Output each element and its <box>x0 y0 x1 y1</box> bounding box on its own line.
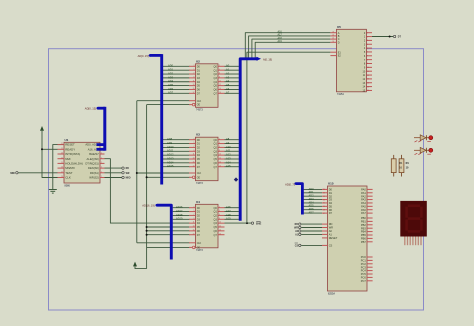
svg-text:ALE(QS0): ALE(QS0) <box>87 157 99 161</box>
svg-text:AD18: AD18 <box>176 213 183 217</box>
svg-text:AD7: AD7 <box>168 91 174 95</box>
U2 left pins <box>189 65 196 67</box>
svg-text:AD16: AD16 <box>176 205 183 209</box>
svg-text:AD15: AD15 <box>167 164 174 168</box>
U1 left pins <box>58 144 65 146</box>
svg-text:U15: U15 <box>328 182 334 186</box>
svg-text:CLK: CLK <box>197 243 202 245</box>
svg-text:RD: RD <box>295 224 299 226</box>
svg-text:PC1: PC1 <box>361 259 367 263</box>
svg-text:11: 11 <box>367 71 369 73</box>
wire U4 D6 <box>147 230 190 232</box>
wire A14 from U3 <box>225 162 239 164</box>
svg-text:74373: 74373 <box>196 109 203 112</box>
svg-text:CLK: CLK <box>197 173 202 175</box>
junction D7 <box>146 234 148 236</box>
wire A0 to U15 <box>301 230 322 232</box>
svg-text:15: 15 <box>193 88 195 90</box>
svg-text:1: 1 <box>367 32 368 34</box>
U5 left pins <box>330 32 336 34</box>
bus AD[16..19] stub <box>156 204 159 207</box>
wire AD9 to U3 <box>163 143 190 145</box>
svg-text:CS: CS <box>329 244 333 248</box>
svg-text:U4: U4 <box>196 200 200 204</box>
svg-text:WR: WR <box>294 228 298 230</box>
svg-text:7: 7 <box>193 214 194 216</box>
wire U1 to terminal WR <box>105 172 122 174</box>
svg-text:12: 12 <box>219 158 221 160</box>
svg-text:26: 26 <box>61 167 63 169</box>
processor U1 8086 <box>64 142 100 183</box>
svg-text:PA7: PA7 <box>361 211 366 215</box>
wire A5 from U2 <box>225 85 239 87</box>
svg-text:11: 11 <box>193 80 195 82</box>
svg-text:10: 10 <box>367 67 369 69</box>
wire U4 D7 <box>147 234 190 236</box>
svg-text:CLK: CLK <box>197 101 202 103</box>
wire U5 address input <box>245 33 330 58</box>
svg-text:A10: A10 <box>226 145 231 149</box>
svg-text:A7: A7 <box>226 91 230 95</box>
svg-text:A3: A3 <box>226 75 230 79</box>
svg-text:17: 17 <box>193 233 195 235</box>
wire AD8 to U3 <box>163 139 190 141</box>
terminal M/IO <box>122 176 124 178</box>
svg-text:A6: A6 <box>226 87 230 91</box>
wire AD6 to U15 <box>304 209 322 211</box>
svg-text:13: 13 <box>193 226 195 228</box>
wire AD10 to U3 <box>163 146 190 148</box>
wire MW to U1 <box>18 172 57 174</box>
junction OE-U3 <box>146 176 148 178</box>
decoder U5 74154 <box>337 29 367 92</box>
wire A0 from U2 <box>225 65 239 67</box>
wire RD to U15 <box>301 223 322 225</box>
LED D1 <box>414 137 429 139</box>
bus AD[0..15] stub at U1 <box>98 107 105 110</box>
svg-text:14: 14 <box>219 88 221 90</box>
svg-text:14: 14 <box>219 161 221 163</box>
svg-text:A8: A8 <box>226 137 230 141</box>
svg-text:10: 10 <box>219 80 221 82</box>
svg-text:PB6: PB6 <box>361 237 366 241</box>
svg-text:PC7: PC7 <box>361 279 367 283</box>
svg-text:A11: A11 <box>226 149 231 153</box>
svg-text:INTR(INTA): INTR(INTA) <box>65 152 80 156</box>
wire VCC to U1 READY and CLK <box>42 131 58 178</box>
svg-text:22: 22 <box>61 148 63 150</box>
wire A16 from U4 <box>225 207 239 209</box>
svg-text:AD10: AD10 <box>167 145 174 149</box>
svg-text:U3: U3 <box>196 133 200 137</box>
wire AD0 to U15 <box>304 188 322 190</box>
wire AD13 to U3 <box>163 158 190 160</box>
wire U4 BHE <box>225 222 252 224</box>
wire A13 from U3 <box>225 158 239 160</box>
U15 left pins <box>322 188 328 190</box>
wire AD6 to U2 <box>163 88 190 90</box>
svg-text:A17: A17 <box>226 209 231 213</box>
power VCC bottom <box>133 262 137 267</box>
svg-text:AD[16..19]: AD[16..19] <box>142 203 155 207</box>
wire U5 address input <box>249 36 331 58</box>
svg-text:AD12: AD12 <box>167 153 174 157</box>
svg-text:TEST: TEST <box>65 171 73 175</box>
svg-text:BHE/S7: BHE/S7 <box>89 152 99 156</box>
resistor R1 element B <box>401 155 403 159</box>
svg-text:3: 3 <box>193 65 194 67</box>
svg-text:D: D <box>338 41 340 44</box>
svg-text:HOLD(HLDA): HOLD(HLDA) <box>65 162 83 166</box>
svg-text:OE: OE <box>197 177 201 179</box>
svg-text:U2: U2 <box>196 59 200 63</box>
svg-text:A18: A18 <box>226 213 231 217</box>
svg-text:A12: A12 <box>226 153 231 157</box>
svg-text:AD4: AD4 <box>168 79 174 83</box>
svg-text:10: 10 <box>219 154 221 156</box>
svg-text:A0: A0 <box>226 64 230 68</box>
wire A9 from U3 <box>225 143 239 145</box>
svg-text:READY: READY <box>65 147 75 151</box>
svg-text:16: 16 <box>367 90 369 92</box>
wire AD12 to U3 <box>163 154 190 156</box>
svg-text:A4: A4 <box>226 79 230 83</box>
svg-text:8: 8 <box>367 59 368 61</box>
seven segment display <box>400 201 427 237</box>
svg-text:74373: 74373 <box>196 249 203 252</box>
wire U2 OE <box>147 104 190 106</box>
wire AD7 to U15 <box>304 212 322 214</box>
terminal BHE <box>251 222 253 224</box>
wire AD3 to U2 <box>163 77 190 79</box>
svg-text:74154: 74154 <box>337 93 344 96</box>
wire U4 OE <box>147 246 190 248</box>
svg-text:8086: 8086 <box>65 184 71 187</box>
svg-text:A13: A13 <box>226 156 231 160</box>
svg-text:AD[0..7]: AD[0..7] <box>285 182 295 186</box>
svg-text:13: 13 <box>193 84 195 86</box>
svg-text:PB1: PB1 <box>361 220 366 224</box>
wire AD11 to U3 <box>163 150 190 152</box>
svg-text:16: 16 <box>219 92 221 94</box>
wire U5 address input <box>252 39 331 58</box>
sheet border rectangle <box>49 49 424 310</box>
svg-text:15: 15 <box>367 86 369 88</box>
svg-text:RD: RD <box>329 222 333 226</box>
svg-text:WR: WR <box>329 226 333 230</box>
wire AD4 to U15 <box>304 202 322 204</box>
wire AD14 to U3 <box>163 162 190 164</box>
svg-text:3: 3 <box>367 40 368 42</box>
svg-text:4: 4 <box>367 44 368 46</box>
wire AD3 to U15 <box>304 199 322 201</box>
wire AD4 to U2 <box>163 81 190 83</box>
svg-text:34: 34 <box>323 189 325 191</box>
svg-text:NMI: NMI <box>65 157 70 161</box>
wire AD19 to U4 <box>173 218 190 220</box>
svg-text:A0: A0 <box>329 229 333 233</box>
svg-text:16: 16 <box>219 165 221 167</box>
svg-text:MN/MX: MN/MX <box>65 166 75 170</box>
wire AD0 to U2 <box>163 65 190 67</box>
svg-text:7: 7 <box>193 73 194 75</box>
svg-text:32: 32 <box>323 196 325 198</box>
wire AD1 to U15 <box>304 192 322 194</box>
svg-text:9: 9 <box>193 218 194 220</box>
svg-text:CLK: CLK <box>65 176 71 180</box>
svg-text:RESET: RESET <box>65 143 75 147</box>
wire U1 RESET to ground <box>53 145 64 190</box>
latch U3 74373 <box>196 137 219 181</box>
svg-text:OE: OE <box>197 105 201 107</box>
svg-text:RD(S1): RD(S1) <box>90 171 99 175</box>
svg-text:30: 30 <box>323 203 325 205</box>
seven segment segments <box>407 206 422 232</box>
wire A6 from U2 <box>225 88 239 90</box>
svg-text:AD0: AD0 <box>168 64 174 68</box>
svg-text:A19: A19 <box>278 40 283 43</box>
svg-text:PC3: PC3 <box>361 265 367 269</box>
wire AD7 to U2 <box>163 92 190 94</box>
svg-text:PC6: PC6 <box>361 276 367 280</box>
U3 right pins <box>218 139 225 141</box>
wire A2 from U2 <box>225 73 239 75</box>
svg-text:8255A: 8255A <box>328 292 335 295</box>
svg-text:A15: A15 <box>226 164 231 168</box>
svg-text:AD11: AD11 <box>167 149 174 153</box>
wire AD18 to U4 <box>173 214 190 216</box>
wire U1 to terminal M/IO <box>105 177 122 179</box>
svg-text:AD1: AD1 <box>168 68 174 72</box>
svg-text:AD5: AD5 <box>168 83 174 87</box>
ground <box>49 189 57 191</box>
svg-text:PB5: PB5 <box>361 233 366 237</box>
U2 right pins <box>218 65 225 67</box>
wire AD5 to U15 <box>304 205 322 207</box>
svg-text:3: 3 <box>193 206 194 208</box>
bus AD[0..15] main vertical <box>149 54 152 57</box>
svg-text:A2: A2 <box>226 71 230 75</box>
latch U2 74373 <box>196 64 219 108</box>
svg-text:10: 10 <box>219 222 221 224</box>
svg-text:9: 9 <box>193 76 194 78</box>
svg-text:21: 21 <box>61 143 63 145</box>
svg-text:AD14: AD14 <box>167 160 174 164</box>
wire U4 CLK <box>137 242 190 244</box>
svg-text:27: 27 <box>323 213 325 215</box>
svg-text:AD6: AD6 <box>168 87 174 91</box>
wire U5 output to DT <box>372 36 393 38</box>
svg-text:PB7: PB7 <box>361 240 366 244</box>
wire A1 to U15 <box>301 233 322 235</box>
svg-text:17: 17 <box>193 92 195 94</box>
svg-text:14: 14 <box>219 229 221 231</box>
svg-text:11: 11 <box>193 154 195 156</box>
svg-text:DT/R(QS1): DT/R(QS1) <box>85 162 99 166</box>
U15 right pins <box>367 188 373 190</box>
svg-text:7: 7 <box>193 146 194 148</box>
latch U4 74373 <box>196 204 219 248</box>
svg-text:13: 13 <box>193 158 195 160</box>
svg-text:U1: U1 <box>65 138 69 142</box>
svg-text:WR(S2): WR(S2) <box>89 176 99 180</box>
junction VCC-READY <box>41 148 43 150</box>
wire A15 from U3 <box>225 166 239 168</box>
svg-text:OE: OE <box>197 248 201 250</box>
svg-text:2: 2 <box>367 36 368 38</box>
svg-text:9: 9 <box>367 63 368 65</box>
svg-text:AD[0..15]: AD[0..15] <box>138 54 149 58</box>
svg-text:14: 14 <box>367 82 369 84</box>
svg-text:CS: CS <box>295 245 299 247</box>
wire VCC to net <box>135 266 147 268</box>
resistor R1 element A <box>393 155 395 159</box>
wire A11 from U3 <box>225 150 239 152</box>
svg-text:AD2: AD2 <box>168 71 174 75</box>
svg-text:WR: WR <box>126 173 130 175</box>
U4 left pins <box>189 207 196 209</box>
svg-text:5: 5 <box>367 48 368 50</box>
svg-text:PC2: PC2 <box>361 262 367 266</box>
junction DT <box>389 36 391 38</box>
svg-text:12: 12 <box>219 84 221 86</box>
wire A3 from U2 <box>225 77 239 79</box>
svg-text:29: 29 <box>323 206 325 208</box>
wire AD5 to U2 <box>163 85 190 87</box>
bus junction diamond <box>234 177 238 181</box>
U3 left pins <box>189 139 196 141</box>
svg-text:AD9: AD9 <box>167 141 173 145</box>
svg-text:5: 5 <box>193 210 194 212</box>
wire U4 D5 <box>147 226 190 228</box>
svg-text:11: 11 <box>193 222 195 224</box>
svg-text:AD3: AD3 <box>309 197 315 201</box>
svg-text:15: 15 <box>193 229 195 231</box>
svg-text:A9: A9 <box>226 141 230 145</box>
svg-text:RD: RD <box>126 168 130 170</box>
svg-text:25: 25 <box>61 162 63 164</box>
terminal WR <box>122 172 124 174</box>
wire AD15 to U3 <box>163 166 190 168</box>
LED D2 <box>414 149 429 151</box>
svg-text:BHE: BHE <box>256 222 262 225</box>
svg-text:12: 12 <box>367 75 369 77</box>
wire U3 OE <box>147 176 190 178</box>
svg-text:U5: U5 <box>337 25 341 29</box>
wire AD17 to U4 <box>173 211 190 213</box>
wire WR to U15 <box>301 227 322 229</box>
svg-text:A19: A19 <box>226 217 231 221</box>
svg-text:A16: A16 <box>226 205 231 209</box>
svg-text:31: 31 <box>323 199 325 201</box>
svg-text:PB0: PB0 <box>361 216 366 220</box>
wire A1 from U2 <box>225 69 239 71</box>
svg-text:AD3: AD3 <box>168 75 174 79</box>
bus A[0..19] vertical <box>240 59 258 221</box>
wire U2 CLK <box>137 100 190 102</box>
wire A7 from U2 <box>225 92 239 94</box>
junction D5 <box>146 226 148 228</box>
svg-text:AD19: AD19 <box>176 217 183 221</box>
U4 right pins <box>218 207 225 209</box>
wire AD2 to U2 <box>163 73 190 75</box>
svg-text:A1: A1 <box>329 233 333 237</box>
wire A4 from U2 <box>225 81 239 83</box>
svg-text:5: 5 <box>193 142 194 144</box>
svg-text:AD7: AD7 <box>309 211 315 215</box>
wire AD2 to U15 <box>304 195 322 197</box>
junction D6 <box>146 230 148 232</box>
wire A18 from U4 <box>225 214 239 216</box>
svg-text:23: 23 <box>61 153 63 155</box>
peripheral U15 8255A <box>328 186 368 291</box>
U5 right pins <box>366 32 372 34</box>
wire A19 from U4 <box>225 218 239 220</box>
svg-text:13: 13 <box>367 79 369 81</box>
wire A12 from U3 <box>225 154 239 156</box>
U1 right pins <box>100 153 105 155</box>
svg-text:A[0..19]: A[0..19] <box>263 57 272 61</box>
svg-text:9: 9 <box>193 150 194 152</box>
svg-text:AD13: AD13 <box>167 156 174 160</box>
svg-text:6: 6 <box>367 52 368 54</box>
svg-text:A5: A5 <box>226 83 230 87</box>
wire U3 CLK <box>137 172 190 174</box>
svg-text:PC4: PC4 <box>361 269 367 273</box>
bus AD[0..7] at U15 <box>294 182 296 184</box>
svg-text:24: 24 <box>61 157 63 159</box>
svg-text:A1: A1 <box>226 68 230 72</box>
svg-text:28: 28 <box>61 176 63 178</box>
svg-text:D7: D7 <box>329 211 333 215</box>
wire U5 enable from BHE <box>247 52 331 223</box>
wire A17 from U4 <box>225 211 239 213</box>
svg-text:M/IO: M/IO <box>126 178 131 180</box>
svg-text:12: 12 <box>219 226 221 228</box>
terminal DT <box>393 35 395 37</box>
wire U1 to terminal RD <box>105 167 122 169</box>
terminal RD <box>122 167 124 169</box>
wire U1 to U4 D4 <box>105 159 190 223</box>
wire latch OE net vertical <box>146 105 148 269</box>
svg-text:15: 15 <box>193 161 195 163</box>
svg-text:16: 16 <box>219 233 221 235</box>
svg-text:3: 3 <box>193 138 194 140</box>
wire AD1 to U2 <box>163 69 190 71</box>
svg-text:PC5: PC5 <box>361 272 367 276</box>
svg-text:AD17: AD17 <box>176 209 183 213</box>
svg-text:PB3: PB3 <box>361 226 366 230</box>
svg-text:17: 17 <box>193 165 195 167</box>
svg-text:PC0: PC0 <box>361 255 367 259</box>
seven segment pins <box>404 237 406 246</box>
svg-text:5: 5 <box>193 69 194 71</box>
wire A10 from U3 <box>225 146 239 148</box>
wire latch CLK net vertical <box>136 101 138 243</box>
svg-text:33: 33 <box>323 192 325 194</box>
wire CS to U15 <box>301 244 322 246</box>
svg-text:28: 28 <box>323 209 325 211</box>
svg-text:7: 7 <box>367 56 368 58</box>
bus label A[0..19] <box>257 57 262 61</box>
wire U5 address input <box>255 42 330 57</box>
svg-text:DEN(S0): DEN(S0) <box>88 166 99 170</box>
wire AD16 to U4 <box>173 207 190 209</box>
junction BHE <box>246 222 248 224</box>
wire A8 from U3 <box>225 139 239 141</box>
svg-text:A14: A14 <box>226 160 231 164</box>
power VCC U1 <box>40 126 44 131</box>
